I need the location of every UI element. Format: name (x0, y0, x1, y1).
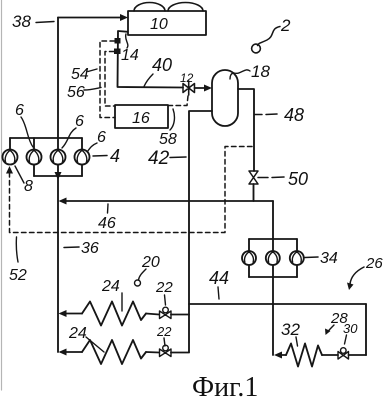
pump 34 right stubs (296, 239, 298, 277)
svg-text:44: 44 (209, 268, 229, 288)
pump stubs top (10, 138, 82, 150)
dashed control line node14b to box16 (54) (105, 52, 115, 107)
heater row 2 wire left with arrow (61, 351, 82, 353)
wire tank bottom-left to riser 189 (189, 111, 212, 352)
heater coil 32 zigzag (286, 344, 322, 367)
svg-text:40: 40 (152, 55, 172, 75)
valve 50 body (249, 171, 258, 184)
arrow row2 into riser (59, 349, 67, 356)
box 10 condenser (128, 11, 206, 35)
fan dome right on box 10 (168, 3, 203, 12)
pumps 4/6 top bus (10, 137, 82, 139)
wire coil to valve 22 row2 (146, 351, 159, 354)
svg-text:20: 20 (141, 254, 160, 271)
svg-text:52: 52 (9, 267, 27, 284)
arrow into box 10 (120, 14, 128, 21)
svg-text:18: 18 (251, 62, 270, 81)
wire tank right outlet (line 48) (238, 89, 254, 171)
dashed control line valve12 to box16 (58) (168, 96, 188, 106)
leader 40 (144, 74, 153, 87)
svg-text:30: 30 (343, 321, 358, 336)
leader 42 (170, 156, 186, 159)
pump 6 third (51, 150, 66, 165)
arrow up into pump 8 (6, 166, 13, 174)
svg-text:6: 6 (15, 102, 24, 119)
leader 24 row2 (86, 337, 104, 352)
pump 8 (first) (3, 150, 18, 165)
svg-text:14: 14 (121, 47, 139, 64)
leader 6 second (62, 128, 76, 148)
valve 12 stem (188, 81, 190, 95)
leader 4 (93, 155, 107, 158)
heater row 1 wire left with arrow (61, 313, 82, 315)
pumps 34 top bus (249, 238, 297, 240)
valve 22 row2 actuator (163, 345, 169, 351)
wire cooler branch bottom with valve 30 (322, 354, 366, 356)
valve 22 row2 body (160, 349, 172, 357)
leader 18 wavy (230, 70, 250, 79)
svg-text:42: 42 (148, 148, 170, 169)
node square 14 lower (114, 49, 121, 55)
heater coil 24 row2 zigzag (82, 340, 146, 364)
wire valve 22 row1 to riser 189 (171, 314, 189, 316)
leader 8 (15, 166, 24, 183)
dashed control line 52 from line48 to pump 8 (10, 147, 253, 233)
svg-text:8: 8 (24, 178, 33, 195)
arrow into tank 18 (204, 85, 212, 92)
arrowhead 26 (347, 283, 354, 291)
svg-text:4: 4 (110, 146, 120, 166)
wire coil 32 to riser 273 (278, 354, 286, 356)
leader 22 row2 (164, 338, 165, 346)
scan edge left (1, 0, 3, 390)
leader 32 (296, 337, 298, 346)
wire valve 22 row2 to riser 189 (171, 352, 189, 354)
leader 34 (305, 256, 318, 259)
pumps 34 bottom bus (249, 276, 297, 278)
svg-text:2: 2 (280, 16, 291, 35)
leader 46 (107, 204, 110, 213)
dashed control line node14a to box16 (56) (100, 41, 115, 118)
wire drop x=273 to pumps 34 and cooler (272, 201, 274, 355)
valve 12 body (183, 84, 195, 93)
svg-text:10: 10 (150, 16, 168, 33)
leader 52 (16, 237, 18, 262)
arrow row1 into riser (59, 310, 67, 317)
svg-text:32: 32 (281, 320, 300, 339)
svg-text:6: 6 (97, 129, 106, 146)
leader 26 arrow (350, 267, 364, 284)
wire main left riser x=58 (57, 18, 59, 353)
valve 30 body (338, 352, 349, 360)
svg-text:24: 24 (68, 325, 87, 342)
svg-text:48: 48 (284, 105, 304, 125)
leader 20 (139, 269, 147, 280)
leader 50 dashes (258, 176, 284, 179)
box 26 right edge (365, 304, 367, 355)
svg-text:50: 50 (288, 169, 308, 189)
leader 30 (345, 335, 347, 344)
pump 34 left stubs (248, 239, 250, 277)
wire valve 12 to tank (195, 87, 208, 89)
svg-text:34: 34 (320, 250, 338, 267)
pump 6 fourth (75, 150, 90, 165)
svg-text:36: 36 (81, 240, 99, 257)
wire valve 50 down to header (253, 184, 255, 201)
node square 14 upper (115, 38, 121, 44)
wire header y=201 (line 46) (61, 200, 273, 202)
valve 22 row1 body (160, 311, 172, 319)
leader 54 (88, 69, 97, 72)
leader 36 (64, 246, 79, 249)
tank 18 vessel (212, 70, 238, 126)
fan dome left on box 10 (134, 3, 165, 12)
svg-text:46: 46 (98, 215, 116, 232)
heater coil 24 row1 zigzag (82, 302, 146, 326)
pump 34 c (290, 251, 304, 265)
svg-text:22: 22 (156, 324, 172, 339)
leader 14 wavy (126, 34, 128, 48)
leader 24 row1 (121, 293, 123, 311)
box 16 controller (115, 105, 168, 128)
svg-text:54: 54 (71, 66, 89, 83)
svg-text:56: 56 (67, 84, 85, 101)
wire 38 feed (y=17 into condenser) (58, 17, 124, 19)
svg-text:24: 24 (101, 278, 120, 295)
valve 30 actuator circle (341, 348, 347, 354)
pump 34 a (242, 251, 256, 265)
svg-text:Фиг.1: Фиг.1 (192, 372, 258, 400)
arrowhead 28 (325, 329, 331, 336)
pump stubs bottom (34, 165, 82, 177)
svg-text:58: 58 (159, 131, 177, 148)
leader 56 (84, 88, 101, 91)
arrow down on riser at pump outlet bus (55, 172, 62, 180)
leader 48 dashes (255, 113, 277, 116)
wire coil to valve 22 row1 (146, 314, 159, 315)
leader 58 (170, 109, 174, 130)
leader 2 squiggle (258, 27, 281, 46)
pumps 4/6 bottom bus (34, 175, 82, 177)
pump 34 b (266, 251, 280, 265)
leader 38 (36, 22, 54, 23)
arrow left into riser 273 (274, 352, 282, 359)
leader 6 third (88, 143, 98, 152)
valve 22 row1 actuator (163, 307, 169, 313)
svg-text:12: 12 (180, 71, 194, 85)
svg-text:38: 38 (12, 12, 31, 31)
leader 6 first (21, 117, 33, 147)
leader 28 arrow (328, 325, 335, 332)
leader 22 row1 (165, 295, 166, 305)
leader 2 hook (252, 44, 261, 53)
leader 20 hook (135, 280, 141, 286)
svg-text:16: 16 (132, 110, 150, 127)
svg-text:26: 26 (365, 255, 383, 272)
wire from box10 down to valve 12 (line 40) (118, 31, 184, 88)
wire line 44 / box 26 top edge y=304 (189, 303, 366, 305)
svg-text:22: 22 (155, 279, 173, 296)
arrow left on header into riser 58 (59, 198, 67, 205)
leader 44 (218, 287, 219, 299)
pump 6 second (27, 150, 42, 165)
